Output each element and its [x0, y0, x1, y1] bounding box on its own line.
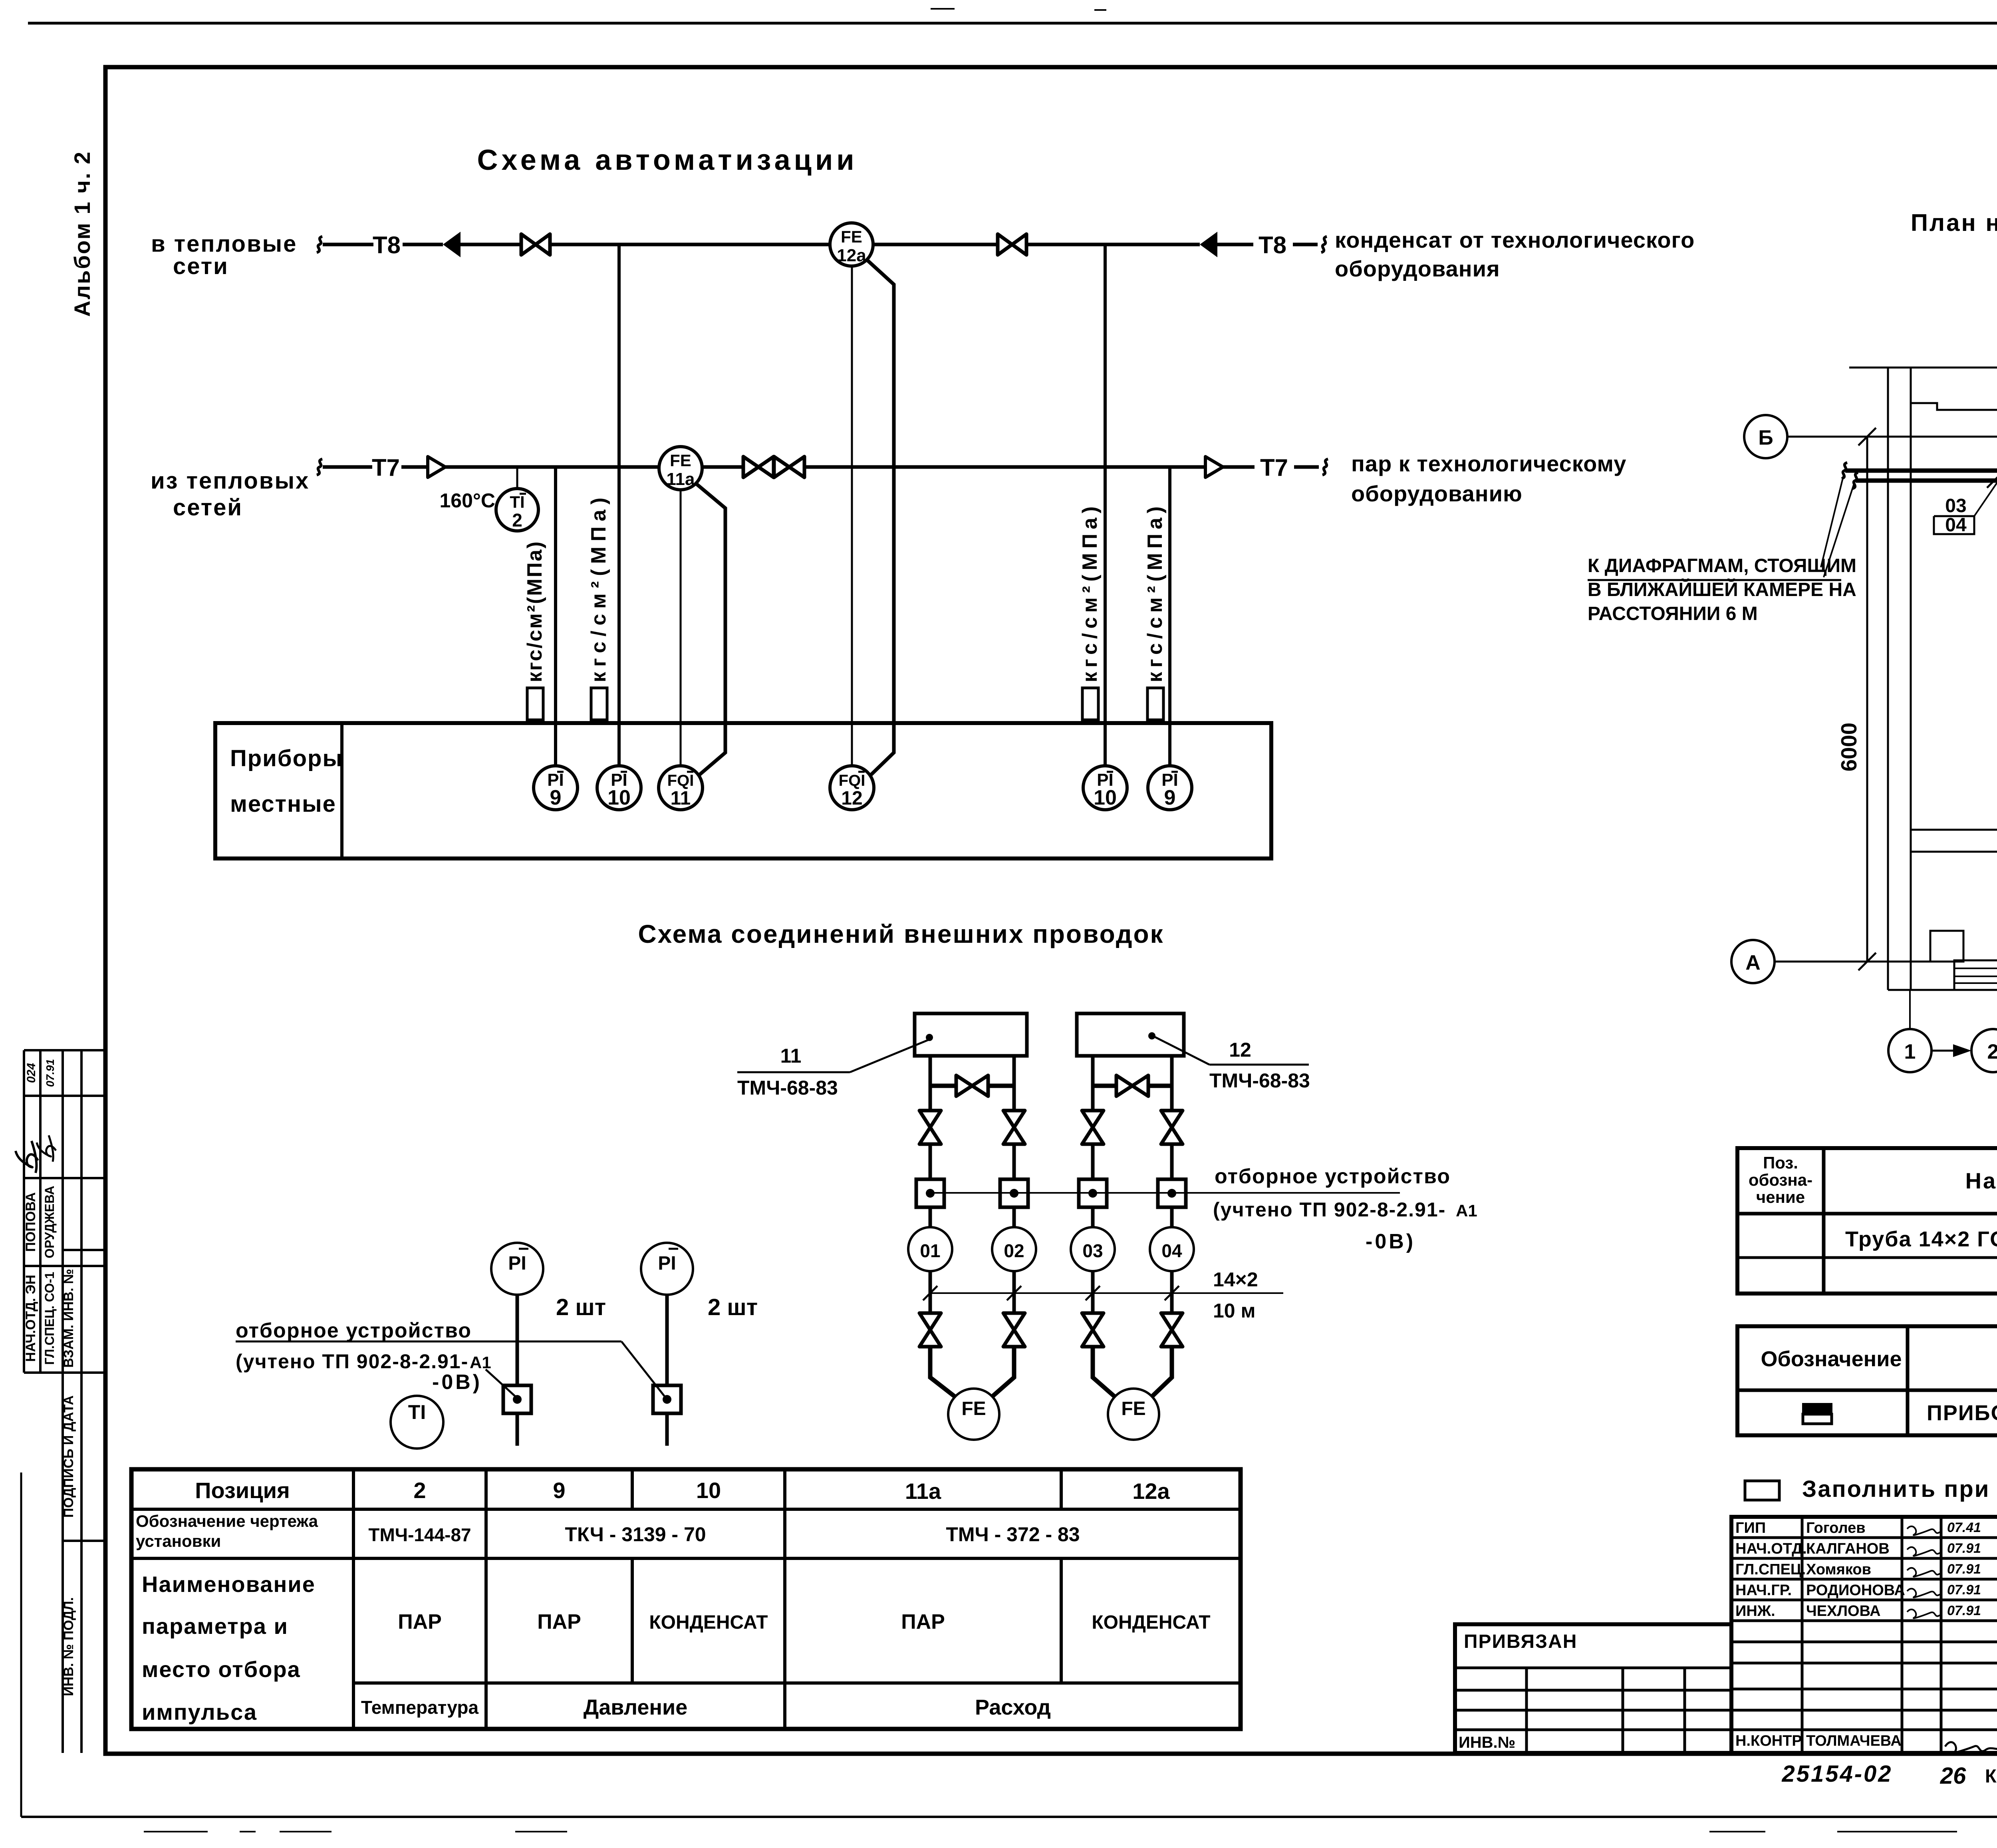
svg-text:КОПИРОВАЛ: СЫРОВА,: КОПИРОВАЛ: СЫРОВА,	[1985, 1765, 1997, 1786]
svg-text:TI: TI	[408, 1401, 426, 1423]
svg-text:ПАР: ПАР	[537, 1610, 581, 1633]
svg-text:Заполнить при привязке п: Заполнить при привязке проекта	[1802, 1476, 1997, 1502]
svg-text:Обозначение: Обозначение	[1761, 1347, 1902, 1371]
svg-text:конденсат от технологического: конденсат от технологического	[1335, 227, 1695, 252]
svg-text:160°С: 160°С	[439, 489, 495, 512]
svg-text:ПОПОВА: ПОПОВА	[23, 1192, 38, 1252]
svg-text:Обозначение чертежа: Обозначение чертежа	[136, 1512, 318, 1530]
svg-text:А1: А1	[470, 1353, 491, 1372]
svg-text:ПОДПИСЬ И ДАТА: ПОДПИСЬ И ДАТА	[61, 1395, 76, 1518]
svg-text:ПАР: ПАР	[398, 1610, 442, 1633]
svg-text:ТОЛМАЧЕВА: ТОЛМАЧЕВА	[1806, 1733, 1902, 1749]
svg-text:Приборы: Приборы	[230, 745, 343, 771]
svg-text:сетей: сетей	[173, 495, 243, 521]
svg-text:ГИП: ГИП	[1735, 1520, 1766, 1536]
svg-text:Труба 14×2 ГОСТ 8134 - 7: Труба 14×2 ГОСТ 8134 - 75*	[1845, 1227, 1997, 1251]
svg-text:кгс/см²(МПа): кгс/см²(МПа)	[523, 540, 546, 682]
svg-text:ГЛ.СПЕЦ. СО-1: ГЛ.СПЕЦ. СО-1	[42, 1272, 57, 1365]
svg-text:2: 2	[413, 1478, 426, 1503]
svg-text:07.91: 07.91	[1947, 1541, 1981, 1556]
svg-text:Б: Б	[1758, 426, 1773, 449]
svg-text:ОРУДЖЕВА: ОРУДЖЕВА	[42, 1186, 57, 1258]
svg-text:Позиция: Позиция	[195, 1478, 290, 1503]
svg-text:ТМЧ-68-83: ТМЧ-68-83	[1209, 1069, 1310, 1092]
svg-text:11а: 11а	[905, 1478, 941, 1504]
svg-text:ГЛ.СПЕЦ.: ГЛ.СПЕЦ.	[1735, 1561, 1806, 1578]
svg-text:10: 10	[607, 786, 631, 809]
svg-text:2 шт: 2 шт	[556, 1294, 606, 1320]
svg-text:9: 9	[553, 1478, 565, 1503]
svg-text:РОДИОНОВА: РОДИОНОВА	[1806, 1582, 1905, 1599]
svg-text:11: 11	[780, 1045, 802, 1067]
svg-text:Т7: Т7	[372, 454, 400, 481]
svg-text:07.41: 07.41	[1947, 1520, 1981, 1535]
svg-text:сети: сети	[173, 253, 229, 279]
svg-text:НАЧ.ОТД. ЭН: НАЧ.ОТД. ЭН	[23, 1275, 38, 1362]
svg-text:FE: FE	[961, 1398, 986, 1419]
svg-text:ИНВ. № ПОДЛ.: ИНВ. № ПОДЛ.	[61, 1597, 76, 1696]
svg-text:-0В): -0В)	[1366, 1230, 1415, 1253]
svg-text:024: 024	[25, 1063, 38, 1083]
svg-text:ПРИВЯЗАН: ПРИВЯЗАН	[1464, 1631, 1577, 1652]
svg-text:оборудованию: оборудованию	[1351, 481, 1523, 506]
svg-text:обозна-: обозна-	[1749, 1170, 1812, 1189]
svg-text:03: 03	[1945, 495, 1966, 517]
svg-text:В БЛИЖАЙШЕЙ КАМЕРЕ НА: В БЛИЖАЙШЕЙ КАМЕРЕ НА	[1588, 578, 1856, 600]
svg-text:07.91: 07.91	[1947, 1603, 1981, 1618]
svg-text:кгс/см²(МПа): кгс/см²(МПа)	[1143, 502, 1167, 682]
svg-text:ТКЧ - 3139 - 70: ТКЧ - 3139 - 70	[565, 1523, 706, 1546]
svg-text:2 шт: 2 шт	[708, 1294, 758, 1320]
svg-text:Расход: Расход	[975, 1695, 1051, 1719]
svg-text:07.91: 07.91	[44, 1059, 56, 1087]
svg-text:12а: 12а	[837, 246, 866, 265]
svg-text:Гоголев: Гоголев	[1806, 1520, 1866, 1536]
svg-text:02: 02	[1004, 1240, 1024, 1261]
svg-text:1: 1	[1904, 1040, 1916, 1063]
svg-text:9: 9	[1164, 786, 1176, 809]
svg-text:12: 12	[841, 788, 862, 809]
svg-text:Альбом 1 ч. 2: Альбом 1 ч. 2	[69, 151, 95, 317]
svg-text:ТМЧ - 372 - 83: ТМЧ - 372 - 83	[946, 1523, 1080, 1546]
svg-text:отборное устройство: отборное устройство	[236, 1319, 472, 1342]
svg-text:Наименование: Наименование	[142, 1572, 316, 1597]
svg-text:FQI: FQI	[667, 772, 694, 789]
svg-text:ТМЧ-68-83: ТМЧ-68-83	[737, 1077, 838, 1099]
svg-text:ПРИБОР, РЕГУЛЯТОР: ПРИБОР, РЕГУЛЯТОР	[1927, 1401, 1997, 1425]
svg-text:КАЛГАНОВ: КАЛГАНОВ	[1806, 1540, 1890, 1557]
svg-text:(учтено ТП 902-8-2.91-: (учтено ТП 902-8-2.91-	[236, 1350, 468, 1373]
svg-text:РАССТОЯНИИ 6 М: РАССТОЯНИИ 6 М	[1588, 603, 1758, 624]
svg-text:Схема автоматизации: Схема автоматизации	[477, 144, 858, 176]
svg-text:КОНДЕНСАТ: КОНДЕНСАТ	[649, 1612, 768, 1633]
svg-text:2: 2	[1987, 1040, 1997, 1063]
svg-text:07.91: 07.91	[1947, 1562, 1981, 1577]
svg-text:кгс/см²(МПа): кгс/см²(МПа)	[1078, 502, 1102, 682]
svg-text:параметра и: параметра и	[142, 1614, 288, 1639]
svg-text:25154-02: 25154-02	[1781, 1761, 1892, 1787]
svg-text:Хомяков: Хомяков	[1806, 1561, 1871, 1578]
svg-text:6000: 6000	[1836, 723, 1861, 771]
svg-text:14×2: 14×2	[1213, 1268, 1258, 1291]
svg-text:-0В): -0В)	[432, 1371, 482, 1394]
svg-text:10 м: 10 м	[1213, 1300, 1256, 1322]
svg-text:2: 2	[512, 510, 522, 531]
svg-text:11: 11	[671, 788, 691, 809]
svg-text:PI: PI	[508, 1253, 526, 1274]
svg-text:ЧЕХЛОВА: ЧЕХЛОВА	[1806, 1603, 1881, 1619]
svg-text:26: 26	[1940, 1763, 1966, 1789]
svg-text:установки: установки	[136, 1532, 221, 1550]
svg-text:К ДИАФРАГМАМ, СТОЯЩИМ: К ДИАФРАГМАМ, СТОЯЩИМ	[1588, 555, 1856, 576]
svg-text:10: 10	[696, 1478, 721, 1503]
svg-text:Схема соединений внешних прово: Схема соединений внешних проводок	[638, 920, 1164, 948]
svg-text:кгс/см²(МПа): кгс/см²(МПа)	[587, 493, 610, 682]
svg-text:Т8: Т8	[1259, 232, 1286, 258]
svg-text:отборное устройство: отборное устройство	[1215, 1165, 1451, 1188]
svg-text:КОНДЕНСАТ: КОНДЕНСАТ	[1092, 1612, 1210, 1633]
svg-text:11а: 11а	[667, 469, 695, 489]
svg-text:TI: TI	[510, 493, 524, 511]
svg-text:чение: чение	[1756, 1188, 1805, 1206]
svg-text:местные: местные	[230, 791, 336, 817]
svg-text:12: 12	[1229, 1039, 1251, 1061]
svg-text:Температура: Температура	[361, 1697, 479, 1718]
svg-text:PI: PI	[658, 1253, 676, 1274]
svg-text:ВЗАМ. ИНВ. №: ВЗАМ. ИНВ. №	[61, 1269, 76, 1368]
svg-text:импульса: импульса	[142, 1699, 257, 1725]
svg-text:НАЧ.ОТД.: НАЧ.ОТД.	[1735, 1540, 1807, 1557]
svg-text:FE: FE	[1121, 1398, 1145, 1419]
svg-text:03: 03	[1082, 1240, 1103, 1261]
svg-text:Поз.: Поз.	[1763, 1153, 1798, 1172]
svg-text:пар к технологическому: пар к технологическому	[1351, 451, 1626, 476]
svg-text:07.91: 07.91	[1947, 1582, 1981, 1598]
svg-text:ПАР: ПАР	[901, 1610, 945, 1633]
svg-text:Н.КОНТР.: Н.КОНТР.	[1735, 1733, 1804, 1749]
svg-text:FE: FE	[670, 451, 691, 470]
svg-text:FQI: FQI	[839, 772, 865, 789]
svg-text:Давление: Давление	[584, 1695, 687, 1719]
svg-text:Т8: Т8	[373, 232, 401, 258]
svg-text:12а: 12а	[1132, 1478, 1170, 1504]
svg-text:место отбора: место отбора	[142, 1657, 301, 1682]
svg-text:04: 04	[1945, 515, 1967, 536]
svg-text:из тепловых: из тепловых	[151, 468, 310, 494]
svg-text:9: 9	[550, 786, 562, 809]
svg-text:А: А	[1745, 951, 1761, 974]
svg-text:Наименование: Наименование	[1965, 1168, 1997, 1193]
svg-text:ТМЧ-144-87: ТМЧ-144-87	[368, 1524, 471, 1545]
svg-text:(учтено ТП 902-8-2.91-: (учтено ТП 902-8-2.91-	[1213, 1198, 1446, 1221]
svg-text:04: 04	[1161, 1240, 1182, 1261]
svg-text:ИНВ.№: ИНВ.№	[1459, 1734, 1515, 1751]
svg-text:01: 01	[920, 1240, 940, 1261]
svg-text:оборудования: оборудования	[1335, 256, 1500, 281]
svg-text:10: 10	[1094, 786, 1117, 809]
svg-text:Т7: Т7	[1260, 454, 1288, 481]
svg-text:План на отм. 0.000: План на отм. 0.000	[1911, 209, 1997, 236]
svg-text:FE: FE	[841, 227, 862, 246]
svg-text:НАЧ.ГР.: НАЧ.ГР.	[1735, 1582, 1792, 1599]
svg-text:А1: А1	[1456, 1201, 1477, 1220]
svg-text:ИНЖ.: ИНЖ.	[1735, 1603, 1775, 1619]
